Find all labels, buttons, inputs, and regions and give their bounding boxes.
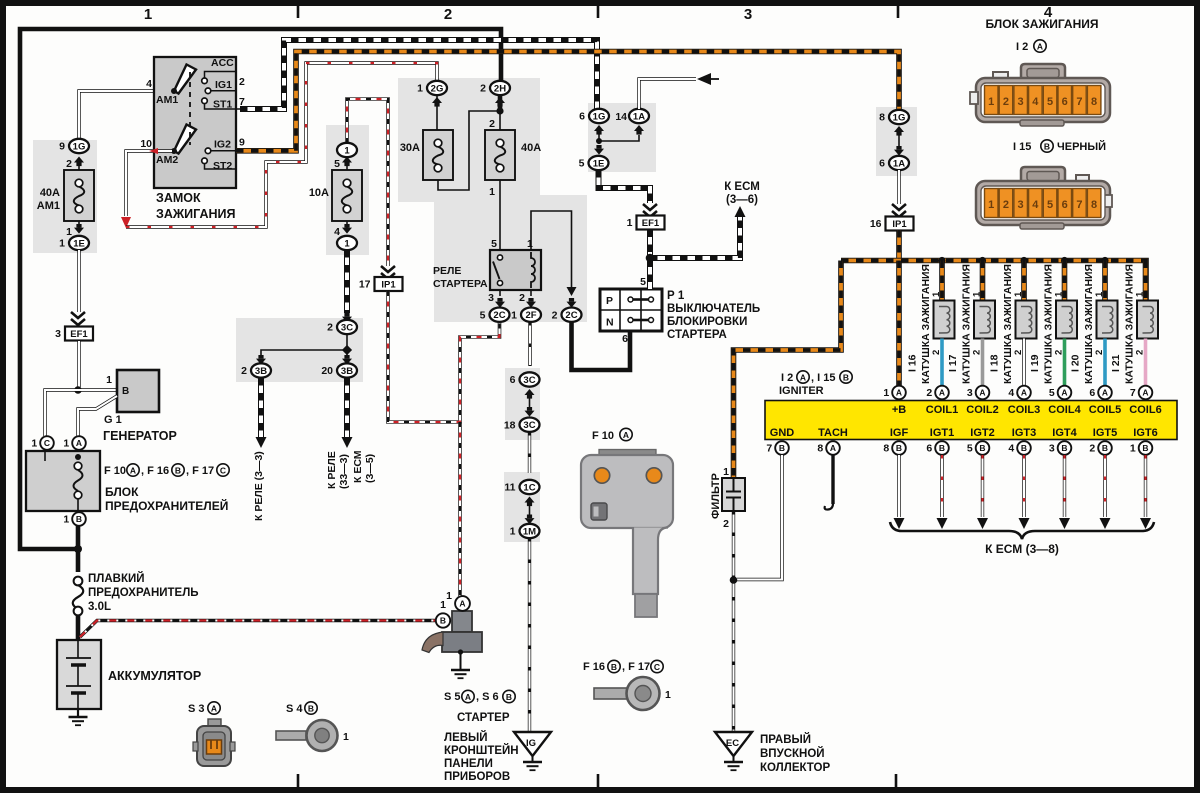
connector 1 pin top 10A (337, 143, 357, 157)
contact ST2 (202, 158, 208, 164)
svg-text:1: 1 (972, 291, 983, 297)
wire fuse block B to fusible link (76, 526, 81, 572)
svg-text:1C: 1C (523, 482, 535, 493)
svg-text:IGT4: IGT4 (1052, 427, 1077, 439)
svg-text:COIL1: COIL1 (926, 404, 958, 416)
svg-text:6: 6 (1062, 199, 1068, 211)
junction main bus (74, 545, 82, 553)
svg-text:КРОНШТЕЙН: КРОНШТЕЙН (444, 744, 519, 757)
svg-text:4: 4 (1008, 387, 1014, 399)
wire coil 5 to igniter (1103, 339, 1107, 387)
node coil bus 1 (938, 257, 945, 264)
ground IG symbol (523, 761, 542, 763)
junction EF1 pin 1 (637, 216, 665, 230)
wire EF1 to P1 pin 5 (647, 230, 653, 290)
connector B igniter IGT1 (935, 441, 949, 455)
wire bus to coil 4 (1062, 261, 1068, 302)
connector 1C pin 11 (520, 480, 540, 494)
connector arrow 2H (495, 97, 505, 103)
svg-text:IG: IG (526, 738, 536, 749)
svg-text:A: A (1061, 388, 1067, 398)
svg-text:7: 7 (1130, 387, 1136, 399)
connector 1G pin 8 (889, 110, 909, 124)
svg-text:1M: 1M (523, 526, 536, 537)
svg-text:1E: 1E (73, 238, 85, 249)
fuse 10A (332, 170, 362, 221)
svg-text:3: 3 (1018, 199, 1024, 211)
svg-text:ПАНЕЛИ: ПАНЕЛИ (444, 758, 493, 770)
svg-text:ST2: ST2 (213, 160, 232, 172)
wire IP1-16 to coil bus (896, 230, 902, 261)
filter (722, 478, 745, 511)
svg-text:B: B (1021, 443, 1027, 453)
connector 3C pin 6 (520, 372, 540, 386)
svg-text:К РЕЛЕ: К РЕЛЕ (326, 451, 338, 489)
svg-text:B: B (896, 443, 902, 453)
svg-text:, F 16: , F 16 (141, 465, 169, 477)
svg-text:2: 2 (926, 387, 932, 399)
svg-text:3C: 3C (341, 322, 353, 333)
connector 3B pin 2 (251, 363, 271, 377)
panel behind connectors 3C-6 3C-18 (505, 368, 540, 440)
wire coil 3 to igniter (1022, 339, 1025, 387)
junction EF1 pin 3 (65, 327, 93, 341)
svg-text:ЗАМОК: ЗАМОК (156, 191, 201, 205)
connector A igniter coil6 (1139, 386, 1153, 400)
svg-text:8: 8 (1091, 96, 1097, 108)
svg-text:14: 14 (615, 111, 627, 123)
wire node to fuse block C (45, 390, 78, 436)
svg-text:B: B (440, 616, 446, 626)
switch lever AM1 (174, 65, 196, 94)
svg-text:2: 2 (723, 518, 729, 530)
svg-text:БЛОК ЗАЖИГАНИЯ: БЛОК ЗАЖИГАНИЯ (985, 17, 1098, 31)
svg-text:ЛЕВЫЙ: ЛЕВЫЙ (444, 731, 488, 744)
wire AM2 pin10 (126, 151, 172, 216)
battery (57, 640, 101, 709)
svg-text:1A: 1A (633, 111, 645, 122)
svg-text:2: 2 (327, 322, 333, 334)
svg-text:1: 1 (1135, 291, 1146, 297)
panel behind connectors 1G-8 1A-6 (876, 107, 917, 176)
svg-text:ST1: ST1 (213, 99, 232, 111)
svg-text:ACC: ACC (211, 57, 234, 69)
wire 2H to node (498, 94, 503, 109)
svg-text:КАТУШКА ЗАЖИГАНИЯ: КАТУШКА ЗАЖИГАНИЯ (1043, 264, 1055, 384)
wire 3C-2 to node (346, 334, 348, 350)
wire IGF to ECM (897, 455, 900, 517)
svg-text:ПРЕДОХРАНИТЕЛЬ: ПРЕДОХРАНИТЕЛЬ (88, 587, 199, 599)
svg-text:2: 2 (239, 76, 245, 88)
svg-text:3: 3 (55, 328, 61, 340)
wire IGT4 to ECM (1063, 455, 1066, 517)
ground EC symbol (724, 761, 743, 763)
node 1G-1E (596, 138, 602, 144)
svg-text:, S 6: , S 6 (476, 691, 499, 703)
svg-text:5: 5 (480, 309, 486, 321)
svg-text:1: 1 (106, 374, 112, 386)
svg-text:C: C (654, 662, 660, 672)
svg-text:2H: 2H (494, 83, 506, 94)
svg-text:5: 5 (1047, 199, 1053, 211)
svg-text:5: 5 (640, 276, 646, 288)
starter motor (452, 611, 472, 632)
svg-text:AM1: AM1 (37, 200, 60, 212)
wire 3B-20 to relay 33-3 (344, 378, 350, 437)
svg-text:СТАРТЕРА: СТАРТЕРА (667, 329, 727, 341)
svg-text:1E: 1E (593, 158, 605, 169)
wire 3B-2 to relay 3-3 (258, 378, 264, 437)
connector arrows EF1-1 (643, 204, 657, 210)
switch lever AM2 (174, 125, 196, 154)
wire bus to coil 2 (980, 261, 986, 302)
arrow IGT3 (1019, 518, 1030, 529)
svg-text:7: 7 (766, 443, 772, 455)
arrow to ECM 3-6 (735, 206, 746, 217)
connector B pin 1 (72, 512, 86, 526)
fusible link 3.0L (74, 577, 83, 586)
svg-text:B: B (1102, 443, 1108, 453)
node 3B junction (342, 345, 352, 355)
svg-text:F 10: F 10 (104, 465, 126, 477)
wire fuse 30A to node 2H (438, 111, 497, 190)
svg-text:B: B (939, 443, 945, 453)
wire fuse 40A to relay 5 (499, 180, 501, 250)
connector A igniter coil3 (1017, 386, 1031, 400)
connector arrow 1E-1 (74, 228, 84, 234)
connector I2 A ignition block (970, 64, 1110, 126)
svg-text:COIL5: COIL5 (1089, 404, 1121, 416)
svg-text:Р 1: Р 1 (667, 290, 685, 302)
node coil bus 3 (1020, 257, 1027, 264)
svg-text:F 10: F 10 (592, 430, 614, 442)
connector 1 pin bottom 10A (337, 236, 357, 250)
fuse inside fuse block (74, 462, 82, 470)
svg-text:1: 1 (931, 291, 942, 297)
svg-text:2G: 2G (431, 83, 444, 94)
connector 1E pin 1 (69, 236, 89, 250)
ground starter (458, 649, 463, 654)
svg-text:2: 2 (66, 158, 72, 170)
svg-text:B: B (76, 514, 82, 524)
svg-text:EC: EC (726, 738, 739, 749)
svg-text:IGT3: IGT3 (1012, 427, 1036, 439)
svg-text:3.0L: 3.0L (88, 601, 111, 613)
svg-text:1: 1 (988, 96, 994, 108)
node generator junction (74, 386, 82, 394)
connector 1M pin 1 (520, 524, 540, 538)
svg-text:I 20: I 20 (1070, 354, 1082, 372)
svg-text:1: 1 (510, 526, 516, 538)
wire fusible link to battery (76, 615, 81, 640)
wire generator B to fuse block A (78, 396, 117, 436)
connector arrow 2F-1 (526, 302, 536, 308)
svg-text:B: B (506, 692, 512, 702)
wire coil 6 to igniter (1144, 339, 1148, 387)
wire branch to ECM 3-6 (650, 217, 740, 258)
svg-text:1: 1 (66, 226, 72, 238)
fuse 40A (485, 130, 515, 180)
generator G1 (117, 370, 159, 412)
svg-text:СТАРТЕРА: СТАРТЕРА (433, 278, 488, 290)
svg-text:К ЕСМ (3—8): К ЕСМ (3—8) (985, 542, 1059, 556)
connector B igniter IGT5 (1098, 441, 1112, 455)
connector A igniter +B (892, 386, 906, 400)
svg-text:ПРИБОРОВ: ПРИБОРОВ (444, 771, 510, 783)
svg-text:IGT5: IGT5 (1093, 427, 1117, 439)
svg-text:IGT2: IGT2 (970, 427, 994, 439)
P1 switch box (600, 289, 662, 331)
svg-text:A: A (800, 372, 806, 382)
svg-text:A: A (1142, 388, 1148, 398)
svg-text:IGT1: IGT1 (930, 427, 954, 439)
igniter box (765, 401, 1177, 440)
svg-text:9: 9 (59, 141, 65, 153)
svg-text:COIL4: COIL4 (1048, 404, 1081, 416)
connector arrow 1A-14 (634, 125, 644, 131)
svg-text:40A: 40A (40, 187, 60, 199)
svg-text:6: 6 (1089, 387, 1095, 399)
connector arrow 2G (432, 97, 442, 103)
svg-text:, F 17: , F 17 (622, 661, 650, 673)
svg-text:A: A (896, 388, 902, 398)
connector arrow 1C-11 (525, 497, 535, 503)
svg-text:, I 15: , I 15 (811, 372, 835, 384)
connector arrow 10A top (342, 157, 352, 163)
svg-text:1: 1 (63, 438, 69, 450)
wire TACH shielded (831, 455, 834, 504)
svg-text:4: 4 (1032, 96, 1039, 108)
svg-text:3C: 3C (523, 375, 535, 386)
svg-text:IGT6: IGT6 (1133, 427, 1157, 439)
fuse 30A (423, 130, 453, 180)
svg-text:7: 7 (1076, 96, 1082, 108)
svg-text:I 17: I 17 (947, 354, 959, 372)
svg-text:ПРЕДОХРАНИТЕЛЕЙ: ПРЕДОХРАНИТЕЛЕЙ (105, 498, 228, 513)
contact ACC (202, 78, 208, 84)
wire 3C-18 to 1C-11 (528, 432, 531, 473)
svg-text:БЛОК: БЛОК (105, 485, 139, 499)
svg-text:A: A (76, 438, 82, 448)
wire IG2 orange bus to 1G-8 (236, 52, 899, 151)
ground triangle EC (715, 732, 752, 756)
wire bus to coil 3 (1021, 261, 1027, 302)
svg-text:9: 9 (239, 137, 245, 149)
wire bus to coil 1 (939, 261, 945, 302)
wire AM1 pin4 to connector 1G-9 (79, 91, 155, 139)
arrow IGT5 (1100, 518, 1111, 529)
connector arrow 1G-8 (894, 126, 904, 132)
svg-text:1: 1 (1094, 291, 1105, 297)
eyelet terminal F16 F17 (594, 688, 627, 699)
svg-text:B: B (611, 662, 617, 672)
connector arrows IP1-16 (892, 204, 906, 210)
svg-text:1: 1 (511, 309, 517, 321)
svg-text:B: B (1044, 141, 1050, 151)
connector arrow 3B-20 (342, 359, 352, 365)
wire EF1 to generator node (77, 341, 80, 387)
node coil bus 2 (979, 257, 986, 264)
svg-text:S 5: S 5 (444, 691, 461, 703)
panel behind connectors 1G-6 1A-14 (588, 103, 656, 172)
connector A pin 1 (72, 436, 86, 450)
svg-text:I 18: I 18 (989, 354, 1001, 372)
svg-text:A: A (130, 465, 136, 475)
ignition coil I 20 (1097, 301, 1118, 339)
svg-text:I 19: I 19 (1029, 354, 1041, 372)
svg-text:A: A (465, 692, 471, 702)
svg-text:30A: 30A (400, 142, 420, 154)
svg-text:5: 5 (579, 158, 585, 170)
svg-text:3B: 3B (341, 366, 353, 377)
svg-text:1: 1 (344, 145, 350, 156)
svg-text:6: 6 (926, 443, 932, 455)
svg-text:ЗАЖИГАНИЯ: ЗАЖИГАНИЯ (156, 207, 235, 221)
ground triangle IG (514, 732, 551, 756)
arrow into 2C-2 (567, 287, 577, 296)
wire IGT5 to ECM (1103, 455, 1106, 517)
svg-text:IGNITER: IGNITER (779, 385, 824, 397)
svg-text:2: 2 (489, 118, 495, 130)
svg-text:EF1: EF1 (642, 218, 660, 229)
wire 1E-1 to EF1 (77, 250, 80, 312)
svg-text:1: 1 (883, 387, 889, 399)
ignition coil I 21 (1137, 301, 1158, 339)
connector arrow 3C-18 (525, 411, 535, 417)
connector S3 (208, 719, 221, 728)
connector A igniter coil5 (1098, 386, 1112, 400)
wire IGT6 to ECM (1144, 455, 1147, 517)
connector 2G pin 1 (427, 81, 447, 95)
connector B igniter IGT2 (976, 441, 990, 455)
svg-text:8: 8 (817, 443, 823, 455)
wire 1E-5 to EF1-1 (599, 170, 651, 203)
svg-text:ВПУСКНОЙ: ВПУСКНОЙ (760, 747, 825, 760)
mechanical link dashed (189, 72, 191, 145)
svg-text:C: C (44, 438, 50, 448)
svg-text:5: 5 (1047, 96, 1053, 108)
connector 1G pin 9 (69, 139, 89, 153)
relay starter box (490, 250, 541, 290)
svg-text:ВЫКЛЮЧАТЕЛЬ: ВЫКЛЮЧАТЕЛЬ (667, 303, 760, 315)
svg-text:A: A (459, 599, 465, 609)
svg-text:6: 6 (579, 111, 585, 123)
svg-text:5: 5 (967, 443, 973, 455)
fuse block box (26, 451, 100, 511)
svg-text:B: B (843, 372, 849, 382)
node below 2H (496, 107, 503, 114)
wire node to 3B-20 (346, 350, 348, 356)
svg-text:5: 5 (491, 238, 497, 250)
svg-text:4: 4 (1032, 199, 1039, 211)
svg-text:(3—5): (3—5) (364, 454, 376, 483)
ground battery (77, 709, 79, 717)
connector 3B pin 20 (337, 363, 357, 377)
wire to fuse 30A via 2G (126, 63, 437, 227)
svg-text:3: 3 (1018, 96, 1024, 108)
panel behind connectors 3C 3B (236, 318, 363, 382)
wire bus to coil 5 (1102, 261, 1108, 302)
connector 2C pin 2 (562, 308, 582, 322)
connector arrow 1G-6 (594, 125, 604, 131)
wire bus to coil 6 (1143, 261, 1149, 302)
connector A igniter coil4 (1058, 386, 1072, 400)
eyelet terminal S4 (276, 731, 306, 740)
svg-text:11: 11 (504, 482, 515, 494)
wire 2C-2 to P1 pin 6 (572, 322, 631, 370)
svg-text:7: 7 (1076, 199, 1082, 211)
connector B igniter IGT6 (1139, 441, 1153, 455)
ignition coil I 16 (934, 301, 955, 339)
svg-text:P: P (606, 295, 613, 307)
svg-text:40A: 40A (521, 142, 541, 154)
incoming arrow (697, 73, 711, 85)
connector I15 B ignition block (976, 167, 1112, 229)
svg-text:2: 2 (1003, 96, 1009, 108)
wire coil 4 to igniter (1063, 339, 1067, 387)
svg-text:2: 2 (1089, 443, 1095, 455)
connector B igniter IGF (892, 441, 906, 455)
svg-text:I 16: I 16 (907, 354, 919, 372)
svg-text:1G: 1G (593, 111, 606, 122)
svg-text:6: 6 (879, 158, 885, 170)
connector arrow 3C-2 (342, 317, 352, 323)
svg-text:КАТУШКА ЗАЖИГАНИЯ: КАТУШКА ЗАЖИГАНИЯ (1083, 264, 1095, 384)
svg-text:1: 1 (1013, 291, 1024, 297)
svg-text:1: 1 (527, 238, 533, 250)
svg-text:3: 3 (488, 292, 494, 304)
svg-text:B: B (1061, 443, 1067, 453)
svg-text:A: A (1102, 388, 1108, 398)
P1 contacts (628, 297, 633, 302)
svg-text:1: 1 (144, 6, 152, 23)
connector 1A pin 14 (629, 109, 649, 123)
connector arrow 10A bottom (342, 228, 352, 234)
svg-text:B: B (979, 443, 985, 453)
connector arrows IP1-17 (381, 266, 395, 272)
svg-text:(33—3): (33—3) (338, 454, 350, 489)
ignition coil I 18 (1016, 301, 1037, 339)
svg-text:B: B (175, 465, 181, 475)
wire fuse 10A to IP1-17 (347, 99, 388, 266)
svg-text:4: 4 (334, 226, 340, 238)
wire 10A to 3C-2 (344, 250, 350, 313)
svg-text:1: 1 (627, 217, 633, 229)
wire GND to filter node (737, 455, 782, 580)
svg-text:17: 17 (359, 279, 371, 291)
connector 1G pin 6 (589, 109, 609, 123)
svg-text:К ЕСМ: К ЕСМ (724, 181, 760, 193)
svg-text:СТАРТЕР: СТАРТЕР (457, 712, 510, 724)
svg-text:1: 1 (59, 238, 65, 250)
grid ticks bottom (298, 774, 896, 788)
svg-text:ПРАВЫЙ: ПРАВЫЙ (760, 733, 811, 746)
svg-text:1: 1 (489, 186, 495, 198)
svg-text:8: 8 (883, 443, 889, 455)
wire to starter A (458, 422, 462, 596)
wire IGT3 to ECM (1022, 455, 1025, 517)
svg-text:6: 6 (622, 333, 628, 345)
arrow to relay 3-3 (256, 437, 267, 448)
svg-text:КАТУШКА ЗАЖИГАНИЯ: КАТУШКА ЗАЖИГАНИЯ (961, 264, 973, 384)
wire IP1-17 to relay 2C-5 (388, 291, 500, 422)
svg-text:1G: 1G (893, 112, 906, 123)
connector A igniter coil2 (976, 386, 990, 400)
svg-text:B: B (122, 386, 129, 397)
svg-text:GND: GND (770, 427, 795, 439)
panel behind starter relay (434, 195, 587, 322)
svg-text:COIL2: COIL2 (966, 404, 998, 416)
